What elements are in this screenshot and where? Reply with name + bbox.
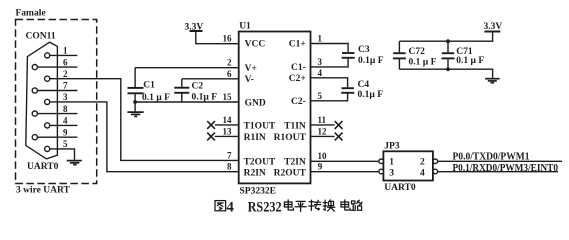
svg-text:15: 15 (223, 92, 233, 102)
svg-text:R1OUT: R1OUT (274, 133, 307, 143)
U1 pin 11 stub + no-connect X (311, 124, 335, 126)
svg-text:3: 3 (318, 57, 323, 67)
svg-text:SP3232E: SP3232E (240, 186, 276, 196)
svg-text:C1-: C1- (291, 63, 306, 73)
svg-text:4: 4 (63, 116, 68, 126)
JP3 pin numbers (389, 158, 425, 179)
svg-text:0.1µ F: 0.1µ F (192, 93, 218, 103)
U1 pin 13 stub + no-connect X (215, 135, 239, 137)
svg-text:3 wire UART: 3 wire UART (16, 186, 71, 196)
svg-text:9: 9 (63, 127, 68, 137)
ground (C1) (127, 112, 143, 116)
JP3 pin 4 circle (433, 169, 438, 174)
svg-text:16: 16 (223, 34, 233, 44)
U1 right pin numbers (318, 34, 328, 172)
svg-text:C1: C1 (143, 80, 155, 90)
char 转 (309, 200, 321, 210)
pin 3 stub (50, 101, 78, 103)
svg-text:1: 1 (389, 158, 394, 168)
char 电 (284, 200, 293, 210)
svg-text:1: 1 (318, 34, 323, 44)
svg-text:9: 9 (318, 162, 323, 172)
svg-text:C2-: C2- (291, 97, 306, 107)
pin 7 circle (32, 88, 37, 93)
JP3 pin 2 circle (433, 159, 438, 164)
wire U1 T2IN to JP3 pin1 (311, 160, 379, 162)
svg-text:UART0: UART0 (27, 162, 59, 172)
svg-text:R2IN: R2IN (244, 169, 266, 179)
svg-text:5: 5 (63, 139, 68, 149)
svg-text:C2: C2 (192, 81, 204, 91)
pin 5 stub (50, 149, 75, 160)
svg-text:1: 1 (63, 46, 68, 56)
svg-text:T1OUT: T1OUT (244, 122, 276, 132)
wire JP3 pin4 to net P0.1 (438, 171, 558, 173)
svg-text:2: 2 (227, 58, 232, 68)
wire DB9 pin2 to U1 T2OUT (77, 79, 238, 161)
wire C1 top to U1 V+ (135, 67, 239, 69)
svg-text:5: 5 (318, 91, 323, 101)
U1 left pin labels (244, 40, 276, 179)
caption 图4 RS232电平转换电路 (215, 199, 362, 215)
svg-text:P0.1/RXD0/PWM3/EINT0: P0.1/RXD0/PWM3/EINT0 (453, 163, 559, 174)
svg-text:0.1µ F: 0.1µ F (358, 56, 384, 66)
capacitor C4 (311, 78, 348, 87)
wire 3.3V to VCC pin16 (196, 31, 239, 44)
svg-text:0.1 µ F: 0.1 µ F (456, 56, 484, 66)
node junction C1/GND rail (133, 100, 137, 104)
char 图 (215, 201, 226, 211)
pin 2 circle (45, 76, 50, 81)
pin 2 stub (50, 78, 78, 80)
svg-text:12: 12 (318, 126, 328, 136)
svg-text:VCC: VCC (245, 40, 266, 50)
svg-text:T2OUT: T2OUT (244, 157, 276, 167)
svg-text:Famale: Famale (16, 9, 46, 19)
svg-text:T1IN: T1IN (284, 122, 306, 132)
svg-text:8: 8 (63, 104, 68, 114)
svg-text:C2+: C2+ (289, 74, 306, 84)
svg-text:C4: C4 (358, 80, 370, 90)
svg-text:4: 4 (226, 199, 234, 215)
svg-text:4: 4 (420, 168, 425, 178)
pin 4 stub (50, 124, 78, 126)
wire C2 top to U1 V- (182, 78, 239, 80)
svg-text:6: 6 (63, 57, 68, 67)
svg-text:10: 10 (318, 151, 328, 161)
JP3 pin 3 circle (379, 169, 384, 174)
pin 7 stub (37, 90, 77, 92)
svg-text:CON11: CON11 (26, 32, 56, 42)
svg-text:C1+: C1+ (289, 40, 306, 50)
bottom rail wire to ground (399, 69, 492, 78)
capacitor C3 (311, 44, 349, 52)
U1 pin 12 stub + no-connect X (311, 135, 335, 137)
pin 8 stub (37, 113, 77, 115)
wire 3.3V down to top rail (399, 32, 492, 42)
svg-text:3: 3 (389, 168, 394, 178)
pin 6 stub (37, 66, 77, 68)
node junction C71 top (446, 39, 450, 43)
svg-text:3: 3 (63, 92, 68, 102)
svg-text:7: 7 (63, 81, 68, 91)
svg-text:C72: C72 (409, 47, 426, 57)
capacitor C72 (398, 41, 400, 52)
svg-text:UART0: UART0 (384, 183, 416, 193)
pin 9 circle (32, 135, 37, 140)
svg-text:GND: GND (245, 98, 266, 108)
dashed box 3-wire UART (16, 20, 97, 184)
capacitor C1 (134, 68, 136, 87)
svg-text:P0.0/TXD0/PWM1: P0.0/TXD0/PWM1 (453, 152, 530, 163)
pin 9 stub (37, 136, 77, 138)
pin 3 circle (45, 99, 50, 104)
svg-text:14: 14 (223, 115, 233, 125)
capacitor C71 (447, 41, 449, 52)
svg-text:RS232: RS232 (248, 199, 282, 215)
ground (right rail) (485, 79, 500, 83)
pin 1 circle (45, 53, 50, 58)
wire U1 R2OUT to JP3 pin3 (311, 171, 379, 173)
char 平 (295, 201, 306, 211)
U1 pin 14 stub + no-connect X (215, 124, 239, 126)
svg-text:4: 4 (318, 68, 323, 78)
svg-text:V-: V- (245, 75, 254, 85)
svg-text:2: 2 (63, 69, 68, 79)
U1 left pin numbers (223, 34, 233, 172)
svg-text:0.1 µ F: 0.1 µ F (409, 57, 437, 67)
svg-text:R2OUT: R2OUT (274, 169, 307, 179)
pin 8 circle (32, 111, 37, 116)
svg-text:C3: C3 (358, 45, 370, 55)
op-amp U1 SP3232E body (239, 32, 311, 184)
svg-text:V+: V+ (245, 64, 257, 74)
pin 1 stub (50, 54, 78, 56)
svg-text:0.1µ F: 0.1µ F (358, 90, 384, 100)
wire GND rail to U1 GND pin15 (135, 101, 239, 103)
node junction C71 bottom (446, 67, 450, 71)
svg-text:R1IN: R1IN (244, 133, 266, 143)
U1 right pin labels (274, 40, 307, 179)
svg-text:11: 11 (318, 115, 327, 125)
svg-text:7: 7 (227, 150, 232, 160)
char 电 (second) (341, 200, 350, 210)
svg-text:2: 2 (420, 158, 425, 168)
pin 4 circle (45, 123, 50, 128)
wire DB9 pin3 to U1 R2IN (77, 102, 238, 172)
ground (DB9 pin5) (67, 161, 82, 165)
svg-text:T2IN: T2IN (284, 157, 306, 167)
pin 5 circle (45, 146, 50, 151)
svg-text:8: 8 (227, 162, 232, 172)
char 路 (351, 200, 362, 210)
char 换 (323, 200, 334, 211)
connector CON11 body (26, 42, 58, 159)
wire JP3 pin2 to net P0.0 (438, 160, 562, 162)
svg-text:U1: U1 (239, 21, 251, 31)
svg-text:13: 13 (223, 126, 233, 136)
svg-text:6: 6 (227, 69, 232, 79)
capacitor C2 (181, 79, 183, 87)
pin 6 circle (32, 65, 37, 70)
JP3 pin 1 circle (379, 159, 384, 164)
svg-text:JP3: JP3 (384, 141, 400, 151)
